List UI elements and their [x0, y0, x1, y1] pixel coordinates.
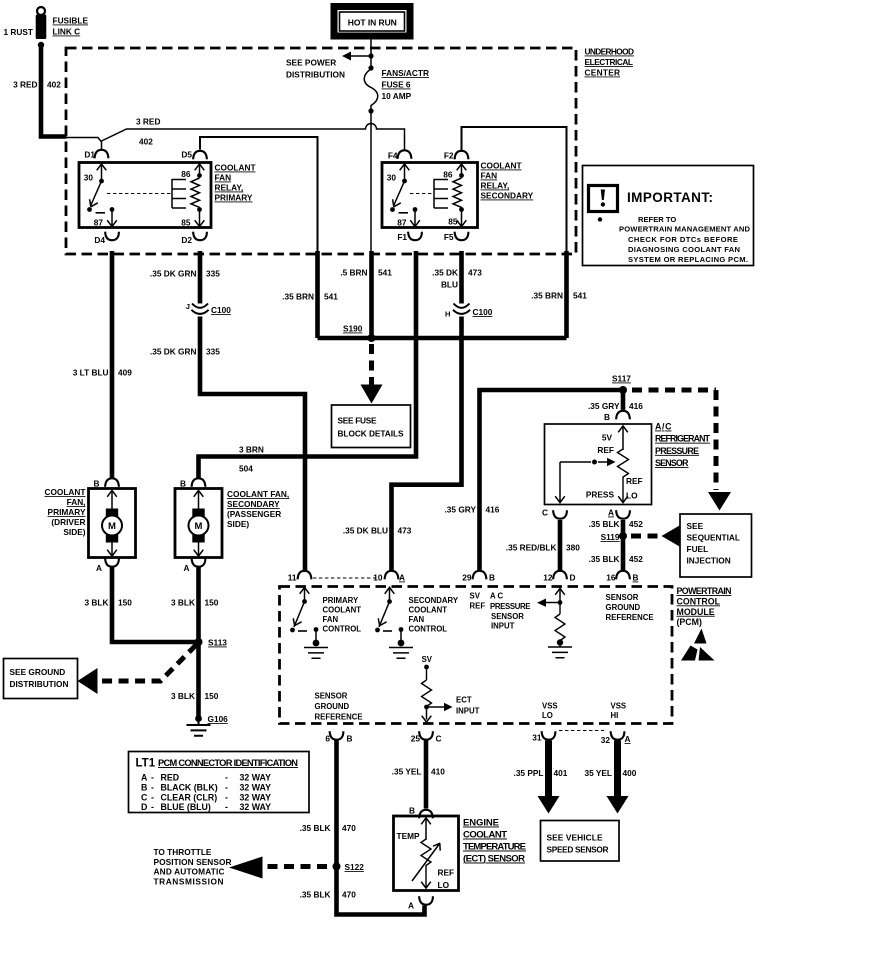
- svg-text:CONTROL: CONTROL: [323, 625, 362, 634]
- svg-text:VSS: VSS: [542, 702, 558, 711]
- svg-text:B: B: [180, 479, 186, 489]
- svg-text:32: 32: [601, 735, 611, 745]
- svg-text:380: 380: [566, 543, 580, 553]
- svg-text:ENGINE: ENGINE: [463, 818, 499, 829]
- svg-text:POWERTRAIN MANAGEMENT AND: POWERTRAIN MANAGEMENT AND: [619, 225, 751, 234]
- svg-text:REFER TO: REFER TO: [638, 215, 676, 224]
- svg-text:452: 452: [629, 519, 643, 529]
- svg-text:GROUND: GROUND: [606, 603, 641, 612]
- svg-text:.35 YEL: .35 YEL: [392, 767, 422, 777]
- svg-text:A/C: A/C: [655, 422, 672, 432]
- svg-text:B: B: [604, 412, 610, 422]
- svg-text:SEE: SEE: [687, 521, 704, 531]
- svg-text:25: 25: [411, 734, 421, 744]
- svg-text:.35 DK GRN: .35 DK GRN: [150, 347, 197, 357]
- svg-text:VSS: VSS: [611, 702, 627, 711]
- svg-text:3 LT BLU: 3 LT BLU: [73, 368, 109, 378]
- svg-text:416: 416: [629, 401, 643, 411]
- svg-text:541: 541: [324, 292, 338, 302]
- svg-text:COOLANT: COOLANT: [215, 163, 256, 173]
- svg-text:C: C: [141, 792, 148, 802]
- svg-text:504: 504: [239, 464, 253, 474]
- svg-text:SECONDARY: SECONDARY: [409, 596, 459, 605]
- svg-text:.35 GRY: .35 GRY: [588, 401, 620, 411]
- svg-text:150: 150: [205, 598, 219, 608]
- svg-text:S122: S122: [345, 862, 365, 872]
- svg-text:12: 12: [543, 573, 553, 583]
- svg-text:S117: S117: [612, 374, 631, 384]
- svg-text:INPUT: INPUT: [491, 622, 515, 631]
- svg-text:32 WAY: 32 WAY: [240, 782, 272, 792]
- svg-text:.35 BLK: .35 BLK: [300, 890, 331, 900]
- svg-text:S119: S119: [601, 532, 620, 542]
- svg-text:COOLANT: COOLANT: [481, 161, 522, 171]
- svg-text:3 BLK: 3 BLK: [171, 691, 195, 701]
- svg-text:RELAY,: RELAY,: [481, 181, 510, 191]
- svg-text:409: 409: [118, 368, 132, 378]
- svg-text:F5: F5: [444, 232, 454, 242]
- svg-text:LO: LO: [542, 711, 553, 720]
- svg-text:INPUT: INPUT: [456, 707, 480, 716]
- svg-text:335: 335: [206, 347, 220, 357]
- svg-text:SEE FUSE: SEE FUSE: [338, 416, 377, 426]
- svg-text:410: 410: [431, 767, 445, 777]
- svg-text:11: 11: [288, 573, 297, 583]
- svg-text:150: 150: [205, 691, 219, 701]
- svg-text:-: -: [225, 802, 228, 812]
- svg-text:COOLANT FAN,: COOLANT FAN,: [227, 489, 289, 499]
- svg-text:SYSTEM OR REPLACING PCM.: SYSTEM OR REPLACING PCM.: [628, 255, 748, 264]
- svg-text:10: 10: [373, 573, 383, 583]
- svg-text:LINK C: LINK C: [53, 27, 81, 37]
- svg-text:FUEL: FUEL: [687, 544, 709, 554]
- svg-text:BLACK (BLK): BLACK (BLK): [161, 782, 218, 792]
- svg-text:D4: D4: [94, 235, 105, 245]
- svg-text:BLUE (BLU): BLUE (BLU): [161, 802, 211, 812]
- svg-text:MODULE: MODULE: [677, 607, 715, 617]
- svg-text:SV: SV: [470, 592, 481, 601]
- svg-text:UNDERHOOD: UNDERHOOD: [585, 47, 635, 57]
- svg-text:REF: REF: [597, 445, 614, 455]
- svg-text:HI: HI: [611, 711, 619, 720]
- svg-text:D: D: [570, 573, 576, 583]
- svg-text:C100: C100: [211, 305, 231, 315]
- svg-text:B: B: [94, 479, 100, 489]
- svg-text:(PCM): (PCM): [677, 617, 702, 627]
- svg-text:-: -: [151, 773, 154, 783]
- svg-text:CONTROL: CONTROL: [409, 625, 448, 634]
- svg-text:HOT IN RUN: HOT IN RUN: [348, 18, 397, 28]
- svg-text:.35 BLK: .35 BLK: [589, 554, 620, 564]
- svg-text:SIDE): SIDE): [63, 527, 85, 537]
- svg-text:5V: 5V: [602, 433, 613, 443]
- svg-text:PRESSURE: PRESSURE: [490, 602, 531, 611]
- svg-text:LO: LO: [438, 880, 450, 890]
- svg-text:SEE POWER: SEE POWER: [286, 58, 336, 68]
- svg-text:FAN,: FAN,: [67, 497, 86, 507]
- svg-text:FAN: FAN: [481, 171, 498, 181]
- svg-text:REF: REF: [626, 476, 643, 486]
- svg-text:DIAGNOSING COOLANT FAN: DIAGNOSING COOLANT FAN: [628, 245, 740, 254]
- svg-text:TO THROTTLE: TO THROTTLE: [154, 847, 212, 857]
- svg-text:F1: F1: [397, 232, 407, 242]
- svg-text:16: 16: [606, 573, 616, 583]
- svg-text:SENSOR: SENSOR: [655, 458, 689, 468]
- svg-text:LO: LO: [626, 491, 638, 501]
- svg-text:AND AUTOMATIC: AND AUTOMATIC: [154, 867, 225, 877]
- svg-text:(DRIVER: (DRIVER: [51, 517, 85, 527]
- svg-text:D5: D5: [181, 150, 192, 160]
- svg-text:F4: F4: [388, 151, 398, 161]
- svg-text:85: 85: [448, 217, 458, 227]
- svg-text:B: B: [489, 573, 495, 583]
- svg-text:J: J: [186, 302, 190, 311]
- svg-text:3 BLK: 3 BLK: [85, 598, 109, 608]
- svg-text:BLOCK DETAILS: BLOCK DETAILS: [338, 429, 404, 439]
- svg-text:RELAY,: RELAY,: [215, 183, 244, 193]
- svg-text:.35 BRN: .35 BRN: [282, 292, 314, 302]
- svg-text:SENSOR: SENSOR: [491, 612, 524, 621]
- svg-text:D: D: [141, 802, 147, 812]
- svg-text:FANS/ACTR: FANS/ACTR: [382, 68, 429, 78]
- svg-text:SV: SV: [422, 655, 433, 664]
- svg-text:LT1: LT1: [136, 758, 156, 770]
- svg-text:IMPORTANT:: IMPORTANT:: [627, 190, 713, 205]
- svg-text:-: -: [225, 782, 228, 792]
- svg-text:H: H: [445, 310, 450, 319]
- svg-text:31: 31: [532, 733, 542, 743]
- svg-text:.35 DK BLU: .35 DK BLU: [343, 526, 388, 536]
- svg-text:A: A: [141, 773, 148, 783]
- svg-text:SENSOR: SENSOR: [606, 593, 639, 602]
- svg-text:D2: D2: [181, 235, 192, 245]
- svg-text:CENTER: CENTER: [585, 68, 621, 78]
- svg-text:-: -: [151, 782, 154, 792]
- svg-text:541: 541: [573, 291, 587, 301]
- svg-text:.35 BRN: .35 BRN: [531, 291, 563, 301]
- svg-text:3 BRN: 3 BRN: [239, 445, 264, 455]
- svg-text:.35 RED/BLK: .35 RED/BLK: [506, 543, 557, 553]
- svg-text:473: 473: [398, 526, 412, 536]
- svg-text:-: -: [151, 792, 154, 802]
- svg-text:SENSOR: SENSOR: [315, 692, 348, 701]
- svg-text:-: -: [225, 773, 228, 783]
- svg-text:G106: G106: [208, 714, 229, 724]
- svg-text:SECONDARY: SECONDARY: [227, 499, 280, 509]
- svg-text:POSITION SENSOR: POSITION SENSOR: [154, 857, 232, 867]
- svg-text:A: A: [625, 734, 631, 744]
- svg-text:SEE VEHICLE: SEE VEHICLE: [547, 833, 603, 843]
- svg-text:PCM CONNECTOR IDENTIFICATION: PCM CONNECTOR IDENTIFICATION: [158, 758, 298, 768]
- svg-text:86: 86: [443, 170, 453, 180]
- svg-text:10 AMP: 10 AMP: [382, 91, 412, 101]
- svg-text:B: B: [347, 734, 353, 744]
- svg-text:402: 402: [47, 80, 61, 90]
- svg-text:COOLANT: COOLANT: [463, 830, 507, 841]
- svg-text:3 RED: 3 RED: [13, 80, 37, 90]
- svg-text:BLU: BLU: [441, 280, 458, 290]
- svg-text:CLEAR (CLR): CLEAR (CLR): [161, 792, 218, 802]
- svg-text:COOLANT: COOLANT: [323, 606, 362, 615]
- svg-text:30: 30: [387, 173, 397, 183]
- svg-text:FUSE 6: FUSE 6: [382, 80, 411, 90]
- svg-text:S113: S113: [208, 638, 227, 648]
- svg-text:401: 401: [554, 768, 568, 778]
- svg-text:REFERENCE: REFERENCE: [606, 613, 654, 622]
- svg-text:TRANSMISSION: TRANSMISSION: [154, 876, 224, 886]
- svg-text:A: A: [184, 563, 190, 573]
- svg-text:.35 BLK: .35 BLK: [300, 823, 331, 833]
- svg-text:C100: C100: [473, 307, 493, 317]
- svg-text:C: C: [436, 734, 442, 744]
- svg-text:85: 85: [181, 218, 191, 228]
- svg-text:D1: D1: [84, 150, 95, 160]
- svg-text:CONTROL: CONTROL: [677, 596, 721, 606]
- svg-text:REF: REF: [470, 601, 486, 610]
- svg-text:.35 DK GRN: .35 DK GRN: [150, 269, 197, 279]
- svg-text:SEE GROUND: SEE GROUND: [10, 667, 66, 677]
- svg-text:.5 BRN: .5 BRN: [340, 268, 367, 278]
- svg-text:PRESSURE: PRESSURE: [655, 446, 699, 456]
- svg-text:FUSIBLE: FUSIBLE: [53, 16, 89, 26]
- svg-text:87: 87: [397, 218, 407, 228]
- svg-text:PRESS: PRESS: [586, 490, 615, 500]
- svg-text:A C: A C: [490, 592, 504, 601]
- svg-text:400: 400: [623, 768, 637, 778]
- svg-text:.35 GRY: .35 GRY: [444, 505, 476, 515]
- svg-text:SEQUENTIAL: SEQUENTIAL: [687, 533, 740, 543]
- svg-text:PRIMARY: PRIMARY: [48, 507, 86, 517]
- svg-text:F2: F2: [444, 151, 454, 161]
- svg-text:DISTRIBUTION: DISTRIBUTION: [10, 679, 69, 689]
- svg-text:FAN: FAN: [409, 615, 425, 624]
- svg-text:A: A: [399, 573, 405, 583]
- svg-text:PRIMARY: PRIMARY: [215, 193, 253, 203]
- svg-text:POWERTRAIN: POWERTRAIN: [677, 586, 732, 596]
- svg-text:473: 473: [468, 268, 482, 278]
- svg-text:-: -: [225, 792, 228, 802]
- svg-text:150: 150: [118, 598, 132, 608]
- svg-text:32 WAY: 32 WAY: [240, 773, 272, 783]
- svg-text:335: 335: [206, 269, 220, 279]
- svg-text:COOLANT: COOLANT: [409, 606, 448, 615]
- svg-text:REFRIGERANT: REFRIGERANT: [655, 434, 711, 444]
- svg-text:B: B: [141, 782, 147, 792]
- svg-text:C: C: [542, 508, 548, 518]
- svg-text:416: 416: [486, 505, 500, 515]
- svg-text:-: -: [151, 802, 154, 812]
- svg-text:.35 BLK: .35 BLK: [589, 519, 620, 529]
- svg-text:470: 470: [342, 890, 356, 900]
- svg-text:87: 87: [94, 218, 104, 228]
- svg-text:3 RED: 3 RED: [136, 117, 160, 127]
- svg-text:452: 452: [629, 554, 643, 564]
- svg-text:TEMP: TEMP: [397, 831, 421, 841]
- svg-text:A: A: [408, 901, 414, 911]
- svg-text:FAN: FAN: [323, 615, 339, 624]
- svg-text:.35 DK: .35 DK: [432, 268, 458, 278]
- svg-text:A: A: [608, 508, 614, 518]
- svg-text:.35 PPL: .35 PPL: [514, 768, 544, 778]
- svg-text:REFERENCE: REFERENCE: [315, 713, 363, 722]
- svg-text:TEMPERATURE: TEMPERATURE: [463, 842, 526, 853]
- svg-text:29: 29: [462, 573, 472, 583]
- svg-text:PRIMARY: PRIMARY: [323, 596, 359, 605]
- svg-text:FAN: FAN: [215, 173, 232, 183]
- svg-text:INJECTION: INJECTION: [687, 556, 731, 566]
- svg-text:32 WAY: 32 WAY: [240, 802, 272, 812]
- svg-text:6: 6: [325, 734, 330, 744]
- svg-text:35 YEL: 35 YEL: [584, 768, 612, 778]
- svg-text:86: 86: [181, 169, 191, 179]
- svg-text:30: 30: [84, 173, 94, 183]
- svg-text:B: B: [633, 573, 639, 583]
- svg-text:SPEED SENSOR: SPEED SENSOR: [547, 845, 609, 855]
- svg-text:470: 470: [342, 823, 356, 833]
- svg-text:ECT: ECT: [456, 696, 472, 705]
- svg-text:402: 402: [139, 137, 153, 147]
- svg-text:B: B: [409, 806, 415, 816]
- svg-text:(ECT) SENSOR: (ECT) SENSOR: [463, 854, 525, 865]
- svg-text:S190: S190: [343, 324, 363, 334]
- svg-text:A: A: [96, 563, 102, 573]
- svg-text:REF: REF: [438, 868, 455, 878]
- svg-text:DISTRIBUTION: DISTRIBUTION: [286, 70, 345, 80]
- svg-text:32 WAY: 32 WAY: [240, 792, 272, 802]
- svg-text:1 RUST: 1 RUST: [3, 27, 33, 37]
- svg-text:(PASSENGER: (PASSENGER: [227, 509, 281, 519]
- svg-text:ELECTRICAL: ELECTRICAL: [585, 57, 634, 67]
- svg-text:SECONDARY: SECONDARY: [481, 191, 534, 201]
- svg-text:GROUND: GROUND: [315, 702, 350, 711]
- svg-text:RED: RED: [161, 773, 180, 783]
- svg-text:SIDE): SIDE): [227, 519, 249, 529]
- svg-text:COOLANT: COOLANT: [44, 487, 85, 497]
- svg-text:3 BLK: 3 BLK: [171, 598, 195, 608]
- svg-text:CHECK FOR DTCs BEFORE: CHECK FOR DTCs BEFORE: [628, 235, 738, 244]
- svg-text:541: 541: [378, 268, 392, 278]
